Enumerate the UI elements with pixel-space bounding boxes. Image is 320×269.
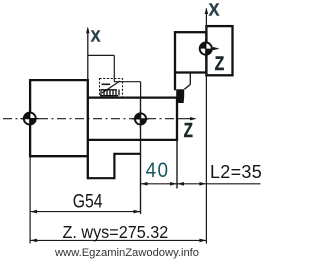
cutting insert (black) bbox=[176, 89, 184, 103]
bottom chuck jaw bbox=[88, 153, 141, 180]
tool shank bbox=[175, 73, 190, 91]
svg-text:X: X bbox=[91, 28, 101, 46]
svg-text:L2=35: L2=35 bbox=[210, 162, 262, 182]
dimension line G54 bbox=[30, 210, 140, 214]
tool reference point symbol T bbox=[200, 39, 212, 58]
workpiece zero symbol W bbox=[132, 110, 149, 127]
chuck body bbox=[30, 79, 88, 179]
Z axis arrow at workpiece zero bbox=[177, 117, 197, 120]
tool body U-holder bbox=[175, 32, 206, 72]
jaw clamp symbol (dashed hatched box) bbox=[100, 79, 123, 98]
svg-text:Z: Z bbox=[184, 119, 193, 142]
dimension line 40 / L2=35 bbox=[141, 182, 261, 186]
svg-text:Z. wys=275.32: Z. wys=275.32 bbox=[63, 222, 169, 242]
turret holder block bbox=[206, 26, 232, 75]
extension line at chuck left face bbox=[29, 157, 31, 244]
svg-text:www.EgzaminZawodowy.info: www.EgzaminZawodowy.info bbox=[54, 247, 199, 259]
svg-text:X: X bbox=[209, 0, 220, 20]
Z axis arrow at tool point bbox=[199, 47, 220, 50]
svg-text:40: 40 bbox=[146, 159, 170, 182]
dimension line Z. wys=275.32 bbox=[30, 239, 206, 243]
extension line at workpiece zero plane bbox=[140, 98, 142, 214]
workpiece body bbox=[88, 97, 177, 142]
svg-text:Z: Z bbox=[215, 52, 225, 74]
centerline (dash-dot axis of rotation) bbox=[3, 118, 176, 120]
X axis 2 (tool axis vertical) bbox=[205, 8, 209, 244]
machine zero symbol M bbox=[21, 109, 40, 128]
extension line at workpiece right face bbox=[176, 140, 178, 189]
top chuck jaw (thin outline) bbox=[88, 55, 141, 97]
X axis 1 (at chuck face) bbox=[86, 27, 90, 80]
svg-text:G54: G54 bbox=[73, 190, 103, 212]
